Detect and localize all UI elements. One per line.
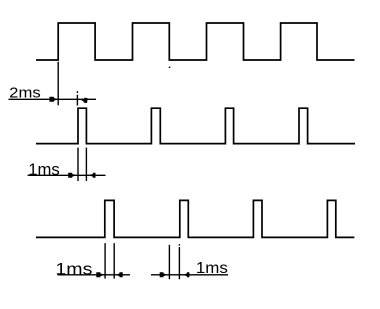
extension line D2a (from W2 pulse rise) (77, 148, 79, 181)
stray point below W1 second falling edge (169, 67, 171, 69)
waveform W1 (top square wave) (36, 23, 355, 60)
arrow D2 left (points right) (68, 173, 76, 178)
extension line D4b (dash-dot at x=179.4) (178, 244, 180, 279)
extension line D4a (solid at x=169.4) (168, 245, 170, 279)
arrow D3 right (points left) (116, 272, 123, 277)
waveform W3 (bottom narrow pulses) (36, 200, 354, 237)
waveform W2 (middle narrow pulses) (36, 108, 355, 143)
arrow D1 left (points right at x=58) (49, 97, 58, 102)
arrow D4 right (points left) (183, 272, 190, 277)
arrow D3 left (points right) (96, 272, 104, 277)
arrow D2 right (points left) (89, 173, 96, 178)
dimension line D1 (2ms leader) (9, 98, 97, 100)
dimension line D3 (bottom-left 1ms) (58, 274, 130, 276)
arrow D1 right (points left, slightly tilted) (80, 97, 88, 103)
dimension line D2 (middle 1ms leader) (28, 174, 106, 176)
extension line D2b (from W2 pulse fall) (85, 148, 87, 181)
extension line D1b (dash-dot at x=77.4) (76, 91, 78, 105)
extension line D1a (from W1 rising edge) (57, 62, 59, 106)
dimension line D4 (bottom-right 1ms) (151, 274, 228, 276)
svg-text:1ms: 1ms (28, 160, 60, 179)
extension line D3b (from W3 pulse1 fall) (113, 243, 115, 279)
svg-text:1ms: 1ms (55, 259, 92, 278)
extension line D3a (from W3 pulse1 rise) (104, 243, 106, 279)
arrow D4 left (points right) (160, 272, 168, 277)
